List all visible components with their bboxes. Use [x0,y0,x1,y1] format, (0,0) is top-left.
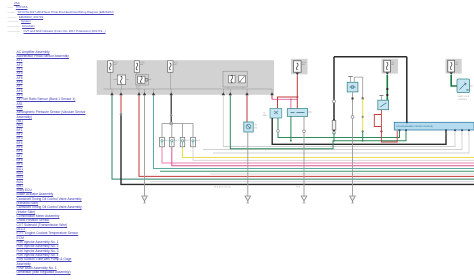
wire band internal bus [104,88,273,90]
wire dark green bus [112,95,474,179]
connector J1 (white) [294,61,302,72]
ECM bus connector (long light blue box) [394,122,474,130]
svg-text:W-B (001719-01): W-B (001719-01) [214,187,231,189]
wire pink injector2 [172,147,474,166]
band connector A38 #2 [134,61,139,72]
svg-text:W-B: W-B [296,187,301,189]
wire red from J1 [278,75,298,108]
svg-text:B1: B1 [255,125,258,127]
svg-text:A38: A38 [140,61,145,64]
wire yellow [362,99,364,132]
wire white W2 to ECM pin [203,130,462,149]
svg-text:No.1: No.1 [165,140,170,142]
svg-text:B2: B2 [255,127,258,129]
wire ground G1 [144,95,146,196]
camshaft OCV relay A [270,108,282,118]
wire ground G4 [352,92,354,196]
noise filter capsule [333,119,335,121]
wire white bus [210,173,474,175]
wire gray loop to yellow [354,77,362,98]
wire ground G3 from OCV [247,132,249,196]
fuel injector assembly No.4 [191,137,196,147]
svg-text:A38: A38 [114,61,119,64]
ground symbol G2 [301,196,307,201]
band inner relay C [223,71,247,87]
breadcrumb navigation tree [14,2,20,5]
wire white injector4 [193,147,474,161]
svg-text:No.4: No.4 [196,140,201,142]
capacitor pin [350,77,352,83]
wire black from relay A [272,118,446,144]
band pin arrows [110,92,113,95]
wire white W1 to ECM pin [223,95,455,146]
wire injector branch [162,124,193,138]
wire pink injector1 [162,147,474,163]
wire yellow injector3 [183,147,474,158]
left sidebar component link list [12,51,15,54]
svg-text:CONTROL: CONTROL [458,99,469,101]
wire black main (red above splice) [120,95,122,114]
ground symbol G4 [350,196,356,201]
svg-text:No.3: No.3 [185,140,190,142]
relay B [287,109,307,117]
wire red loop (regulator) [374,110,397,142]
wire red to OCV [246,95,248,122]
band inner component B (valve) [136,74,149,85]
splice diamond [119,112,122,115]
fuel injector assembly No.1 [160,137,165,147]
connector bg K1 [382,59,399,74]
wire green from capsule [333,133,335,141]
band connector A38 #1 [108,61,113,72]
svg-text:A24: A24 [302,61,307,64]
wire green thick from K2 [451,75,457,86]
wire white W3 to ECM pin [213,130,469,153]
wire green from relay A [278,118,400,138]
svg-text:A20: A20 [263,114,267,117]
ECM shield block (gray band) [97,61,274,95]
fuel injector assembly No.2 [170,137,175,147]
park/neutral switch box [457,79,470,93]
svg-text:No.2: No.2 [175,140,180,142]
svg-text:E2 ECM (ENGINE CONTROL MODULE): E2 ECM (ENGINE CONTROL MODULE) [397,126,434,128]
svg-text:104: 104 [445,134,449,136]
wire pink feed from band [271,95,273,99]
wire green thick from K1 [386,75,388,100]
band connector A52 #3 [168,61,173,72]
wire green bus mid [160,170,474,172]
generator box [380,96,382,101]
svg-text:A52: A52 [174,61,179,64]
svg-text:IG: IG [263,113,266,115]
wire red bus [139,95,474,176]
wire ground G2 from relay B [303,116,305,196]
connector K2 (white) [448,60,455,72]
wire green from band (jog) [230,95,406,149]
connector K1 (white) [384,60,391,72]
svg-text:SHIFT LOCK: SHIFT LOCK [458,96,470,98]
wire black jumper frame [334,57,407,132]
band inner component A (sensor) [117,75,125,85]
injector branch junction [170,122,173,125]
wire teal bus [154,95,474,168]
wire injector feed (black) [170,95,172,123]
fuel injector assembly No.3 [180,137,185,147]
connector bg K2 [446,59,462,74]
connector bg J1 [291,59,308,75]
wire green from yellow [362,131,364,141]
wire green from relay B [290,116,292,140]
ground symbol G1 [142,196,148,201]
ignition relay box [347,82,358,92]
ground symbol G3 [245,196,251,201]
camshaft OCV box [244,122,253,132]
wire white bus low [150,181,474,183]
